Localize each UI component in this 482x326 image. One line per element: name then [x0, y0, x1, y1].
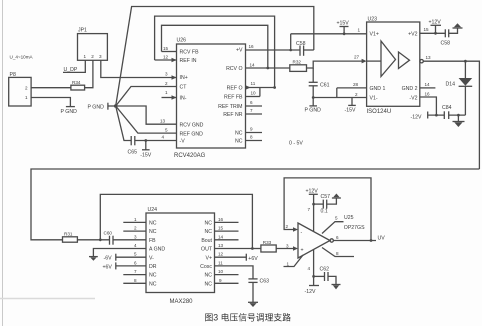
svg-text:2: 2 — [25, 86, 28, 91]
power +12V (op-amp) — [306, 189, 319, 206]
svg-text:RCV FB: RCV FB — [180, 50, 200, 56]
wire: JP1 pin3 to U26 IN+ — [101, 60, 177, 77]
pin 11 U26 REF O — [246, 81, 256, 90]
svg-text:-12V: -12V — [305, 289, 316, 295]
resistor R32 — [290, 60, 307, 72]
svg-text:5: 5 — [165, 127, 168, 132]
svg-text:8: 8 — [336, 251, 339, 256]
wire: node to R33 — [252, 248, 261, 250]
svg-text:A GND: A GND — [149, 247, 165, 253]
pin 10 U26 REF FB wire — [246, 88, 260, 97]
pin 6 U26 REF TRIM stub — [246, 100, 263, 106]
svg-text:+12V: +12V — [306, 189, 319, 195]
svg-text:2: 2 — [165, 81, 168, 86]
svg-text:C65: C65 — [128, 149, 138, 155]
power -12V (op-amp) — [305, 286, 320, 296]
wire: GND1 step down to V1- row — [336, 88, 338, 98]
svg-text:C58: C58 — [296, 41, 306, 47]
diode D14 — [446, 61, 473, 115]
power -15V at U23 V1- — [345, 98, 356, 114]
svg-text:MAX280: MAX280 — [170, 299, 194, 305]
svg-text:1: 1 — [25, 95, 28, 100]
power +12V (top right) — [429, 20, 442, 34]
svg-text:0.1: 0.1 — [321, 209, 328, 215]
svg-text:1: 1 — [134, 217, 137, 222]
pin 12 U26 REF IN — [155, 55, 177, 63]
resistor R34 — [71, 80, 85, 90]
svg-text:5: 5 — [335, 216, 338, 221]
svg-text:C58: C58 — [441, 41, 451, 47]
resistor R33 — [261, 240, 276, 252]
svg-text:REF GND: REF GND — [180, 131, 204, 137]
svg-text:3: 3 — [99, 54, 102, 59]
svg-text:C61: C61 — [320, 83, 330, 89]
svg-text:3: 3 — [286, 244, 289, 249]
svg-text:C62: C62 — [320, 267, 330, 273]
svg-text:15: 15 — [424, 27, 430, 32]
svg-text:Cosc: Cosc — [200, 264, 212, 270]
svg-text:DR: DR — [149, 264, 157, 270]
svg-text:7: 7 — [308, 207, 311, 212]
filter U24 MAX280 body — [146, 207, 215, 305]
svg-text:NC: NC — [149, 221, 157, 227]
svg-text:16: 16 — [425, 91, 431, 96]
pin 11 U24 Cosc to C63 — [215, 260, 254, 279]
pin 5 U25 stub — [322, 216, 344, 234]
svg-text:ISO124U: ISO124U — [367, 109, 392, 115]
svg-text:NC: NC — [149, 281, 157, 287]
pin 5 U24 V- to -6V — [116, 252, 146, 261]
pin 15 U24 NC stub — [215, 226, 239, 232]
svg-text:12: 12 — [218, 252, 224, 257]
svg-text:P GND: P GND — [88, 104, 105, 110]
pin 7 U25 V+ wire — [308, 204, 314, 231]
svg-text:9: 9 — [219, 278, 222, 283]
svg-text:U25: U25 — [344, 215, 354, 221]
svg-text:REF IN: REF IN — [180, 58, 197, 64]
svg-text:JP1: JP1 — [78, 28, 87, 34]
svg-text:7: 7 — [134, 269, 137, 274]
wire: GND2 pin 14 stub — [420, 82, 436, 88]
svg-text:-: - — [301, 230, 303, 236]
svg-text:2: 2 — [134, 226, 137, 231]
svg-text:NC: NC — [205, 229, 213, 235]
svg-text:10: 10 — [251, 91, 257, 96]
svg-text:U_DP: U_DP — [64, 67, 78, 73]
svg-text:8: 8 — [250, 135, 253, 140]
svg-text:R34: R34 — [72, 80, 81, 85]
svg-text:NC: NC — [235, 131, 243, 137]
wire: -12V rail — [428, 114, 466, 117]
svg-text:14: 14 — [218, 234, 224, 239]
svg-text:OUT: OUT — [201, 247, 213, 253]
pin 6 U24 DR to +6V — [116, 260, 146, 269]
wire: node to C65 — [116, 106, 132, 141]
wire: JP1 pin1 to net U_DP — [63, 60, 85, 72]
power +15V — [337, 21, 350, 34]
svg-text:P GND: P GND — [305, 107, 322, 113]
svg-text:3: 3 — [165, 72, 168, 77]
connector JP1 — [78, 28, 108, 61]
svg-text:7: 7 — [250, 108, 253, 113]
pin 15 U26 RCV FB — [162, 46, 177, 52]
node P GND star junction — [88, 103, 118, 111]
scan artifact left edge — [2, 0, 4, 326]
pin 8 U25 stub — [322, 248, 354, 257]
svg-text:4: 4 — [308, 266, 311, 271]
svg-text:图3 电压信号调理支路: 图3 电压信号调理支路 — [205, 312, 292, 323]
capacitor C62 — [314, 267, 330, 282]
pin 9 U24 NC stub — [215, 278, 239, 284]
wire: feedback loop output to -input — [284, 178, 372, 242]
svg-text:1: 1 — [358, 28, 361, 33]
svg-text:16: 16 — [218, 217, 224, 222]
capacitor C58 (right decoupling) — [441, 29, 451, 46]
svg-text:6: 6 — [134, 260, 137, 265]
svg-text:IN+: IN+ — [180, 75, 188, 81]
svg-text:-15V: -15V — [345, 108, 356, 114]
wire: node to CT pin 2 — [116, 87, 177, 107]
svg-text:27: 27 — [354, 55, 360, 60]
pin 9 U26 NC stub — [246, 127, 263, 133]
svg-text:28: 28 — [353, 82, 359, 87]
svg-text:13: 13 — [218, 243, 224, 248]
svg-text:+6V: +6V — [103, 264, 113, 270]
U23 internal amplifier triangle 1 — [381, 41, 396, 77]
svg-text:NC: NC — [149, 273, 157, 279]
svg-text:3: 3 — [134, 234, 137, 239]
svg-text:REF FB: REF FB — [224, 95, 243, 101]
wire: U26 +V pin16 line — [246, 49, 314, 52]
svg-text:6: 6 — [336, 235, 339, 240]
svg-text:+12V: +12V — [429, 20, 442, 26]
svg-text:GND 2: GND 2 — [402, 86, 418, 92]
pin 13 U24 OUT wire to node — [215, 243, 254, 250]
svg-text:4: 4 — [134, 243, 137, 248]
svg-text:FB: FB — [149, 238, 156, 244]
svg-text:OP27GS: OP27GS — [344, 225, 365, 231]
svg-text:15: 15 — [163, 46, 169, 51]
wire: U23 +V2 pin 15 line — [420, 27, 446, 35]
svg-text:P8: P8 — [10, 72, 16, 78]
svg-text:-V: -V — [180, 139, 186, 145]
wire: R33 to op-amp +input — [276, 244, 298, 251]
wire: C57 to earth — [327, 198, 337, 204]
svg-text:11: 11 — [251, 81, 256, 86]
svg-text:1: 1 — [165, 90, 168, 95]
isolation amp U23 ISO124U body — [367, 17, 420, 116]
svg-text:V-: V- — [149, 255, 154, 261]
svg-text:U26: U26 — [177, 38, 187, 44]
capacitor C58 (left, series on +V line) — [296, 41, 306, 56]
svg-text:U23: U23 — [368, 17, 378, 23]
svg-text:NC: NC — [205, 281, 213, 287]
wire: P8 pin2 to R34 — [31, 87, 71, 89]
svg-text:D14: D14 — [446, 82, 456, 88]
pin 1 U26 IN- (floating stub) — [162, 90, 177, 100]
wire: long return from U23 output to R31 — [31, 169, 479, 240]
svg-text:RCV GND: RCV GND — [180, 122, 204, 128]
svg-text:-V2: -V2 — [409, 96, 417, 102]
wire: C62 to earth — [328, 276, 336, 284]
pin 1 U25 stub — [284, 255, 304, 267]
wire: V1- pin 2 row to C61 node — [313, 92, 366, 98]
svg-text:V+: V+ — [206, 255, 213, 261]
svg-text:REF NR: REF NR — [223, 112, 243, 118]
pin 4 U24 A GND wire — [93, 243, 146, 257]
svg-text:2: 2 — [355, 92, 358, 97]
capacitor C61 — [309, 68, 330, 89]
wire: C65 to -V pin 4 — [135, 139, 177, 142]
power -15V tick at C65 — [140, 141, 151, 159]
svg-text:12: 12 — [163, 55, 169, 60]
wire: node to REF GND pin 5 — [116, 106, 177, 133]
wire: outer loop from P GND node to +V rail — [116, 7, 314, 107]
capacitor C84 — [442, 105, 452, 119]
power -12V tick (right) — [411, 112, 428, 121]
svg-text:V1+: V1+ — [370, 32, 379, 38]
svg-text:10: 10 — [218, 269, 224, 274]
svg-text:P GND: P GND — [61, 109, 78, 115]
svg-text:15: 15 — [218, 226, 224, 231]
svg-text:NC: NC — [205, 221, 213, 227]
wire: +15V rail to U23 V1+ — [291, 32, 367, 35]
svg-text:-12V: -12V — [411, 114, 422, 120]
scan artifact bottom left — [0, 298, 95, 300]
resistor R31 — [63, 232, 78, 243]
pin 4 U25 V- wire — [308, 250, 316, 286]
pin 10 U24 NC stub — [215, 269, 239, 275]
pin 12 U24 V+ to +6V — [215, 252, 247, 261]
svg-text:14: 14 — [425, 82, 431, 87]
ground P GND under P8 — [61, 107, 78, 115]
svg-text:1: 1 — [287, 261, 290, 266]
ground earth (top right) — [453, 23, 463, 28]
wire: JP1 pin2 down to R34 — [85, 60, 93, 87]
svg-text:-6V: -6V — [104, 256, 113, 262]
svg-text:U24: U24 — [148, 207, 158, 213]
svg-text:V1-: V1- — [370, 96, 378, 102]
U23 internal amplifier triangle 2 — [399, 52, 410, 69]
svg-text:+: + — [301, 248, 304, 254]
svg-text:13: 13 — [426, 55, 432, 60]
svg-text:5: 5 — [134, 252, 137, 257]
svg-text:R31: R31 — [64, 232, 73, 237]
svg-text:IN-: IN- — [180, 96, 187, 102]
pin 7 U24 NC stub — [123, 269, 146, 275]
svg-text:13: 13 — [160, 119, 166, 124]
ground earth (above C57) — [332, 194, 341, 199]
wire: R32 to U23 pin 27 with jog — [307, 61, 364, 68]
svg-text:UV: UV — [378, 236, 386, 242]
wire: inner loop RCV FB(15) to RCV O(14) — [162, 25, 270, 69]
svg-text:1: 1 — [84, 54, 87, 59]
pin 27 U23 input arrow — [354, 55, 367, 64]
pin 16 U24 NC stub — [215, 217, 239, 223]
svg-text:+V: +V — [236, 48, 243, 54]
svg-text:RCV O: RCV O — [226, 66, 242, 72]
capacitor C63 — [248, 279, 269, 285]
capacitor C57 — [314, 194, 331, 209]
wire: middle loop REF IN(12) to REF O(11) — [155, 16, 276, 89]
wire: RCV O pin14 to R32 — [246, 67, 290, 69]
svg-text:C84: C84 — [442, 105, 452, 111]
wire: C60 to U24 FB pin 3 — [113, 239, 146, 241]
ground earth (below C62) — [332, 285, 341, 290]
svg-text:+V2: +V2 — [408, 32, 417, 38]
wire: node to RCV GND pin 13 — [116, 106, 177, 124]
pin 7 U26 REF NR stub — [246, 108, 263, 114]
pin 3 U26 IN+ — [165, 72, 177, 80]
svg-text:REF TRIM: REF TRIM — [218, 104, 242, 110]
svg-text:GND 1: GND 1 — [370, 86, 386, 92]
pin 2 U24 NC stub — [123, 226, 146, 232]
pin 14 U24 Bout stub — [215, 234, 239, 240]
wire: GND1 pin 28 stub — [337, 82, 367, 88]
wire: -V2 pin 16 down to -12V rail — [420, 91, 437, 115]
svg-text:NC: NC — [149, 229, 157, 235]
pin 13 U23 output circle — [420, 55, 431, 63]
svg-text:11: 11 — [218, 260, 223, 265]
ground earth (below C84) — [453, 115, 465, 127]
wire: P8 pin1 to P GND — [31, 98, 70, 107]
wire: R31 to C60 and FB — [77, 238, 109, 241]
IC U26 RCV420AG body — [174, 38, 246, 160]
svg-text:+6V: +6V — [248, 256, 258, 262]
ground A GND slashed — [89, 257, 98, 261]
svg-text:R32: R32 — [293, 60, 302, 65]
svg-text:RCV420AG: RCV420AG — [174, 153, 206, 159]
svg-text:NC: NC — [205, 273, 213, 279]
svg-text:REF O: REF O — [227, 86, 243, 92]
wire: tap from R31 node up and right to R33 node — [100, 194, 252, 248]
ground earth (below C63) — [248, 282, 258, 307]
svg-text:R33: R33 — [263, 240, 272, 245]
svg-text:+15V: +15V — [337, 21, 350, 27]
wire: op-amp output to UV — [330, 235, 376, 242]
wire: U23 output to right edge and down — [423, 60, 479, 169]
svg-text:C63: C63 — [260, 279, 270, 285]
capacitor C60 — [104, 231, 114, 245]
svg-text:C57: C57 — [321, 194, 331, 200]
svg-text:8: 8 — [134, 278, 137, 283]
pin 1 U24 NC stub — [123, 217, 146, 223]
svg-text:NC: NC — [235, 139, 243, 145]
op-amp U25 OP27GS triangle — [298, 215, 365, 258]
pin 8 U26 NC stub — [246, 135, 263, 141]
svg-text:2: 2 — [286, 224, 289, 229]
connector P8 — [9, 72, 31, 106]
svg-text:0 - 5V: 0 - 5V — [289, 141, 303, 147]
svg-text:4: 4 — [162, 135, 165, 140]
ground P GND under C61 — [305, 86, 322, 114]
svg-text:16: 16 — [249, 44, 255, 49]
svg-text:-15V: -15V — [140, 152, 151, 158]
wire: +V line up to +15V rail — [290, 34, 292, 50]
pin 8 U24 NC stub — [123, 278, 146, 284]
capacitor C65 — [128, 136, 138, 155]
svg-text:9: 9 — [250, 127, 253, 132]
svg-text:6: 6 — [250, 100, 253, 105]
svg-text:C60: C60 — [104, 231, 113, 236]
svg-text:14: 14 — [250, 63, 256, 68]
svg-text:U_4~10mA: U_4~10mA — [10, 55, 34, 60]
svg-text:Bout: Bout — [201, 238, 212, 244]
svg-text:CT: CT — [180, 85, 188, 91]
wire: C58 to earth — [449, 28, 458, 33]
svg-text:2: 2 — [91, 54, 94, 59]
